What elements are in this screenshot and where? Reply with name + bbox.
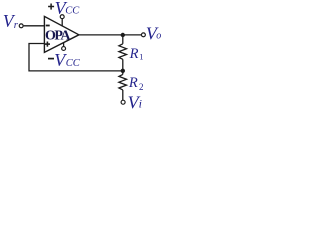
svg-text:2: 2 — [139, 82, 144, 92]
wire op-amp output to Vo — [79, 34, 141, 36]
terminal -VCC — [62, 47, 66, 51]
wire node B to R2 — [122, 71, 124, 75]
resistor R2 — [119, 74, 127, 90]
terminal Vo — [141, 33, 145, 37]
wire node A to R1 — [122, 35, 124, 44]
wire feedback: op-amp non-inverting input to node B — [29, 44, 123, 71]
op-amp inverting input marker (minus) — [46, 25, 50, 27]
junction node A (output/R1) — [121, 33, 125, 37]
wire op-amp bottom edge to -VCC terminal — [63, 43, 65, 47]
op-amp U1 triangle — [44, 16, 79, 52]
terminal +VCC — [60, 15, 64, 19]
terminal Vi — [121, 100, 125, 104]
wire R1 to node B — [122, 59, 124, 71]
svg-text:CC: CC — [66, 58, 81, 69]
svg-text:R: R — [128, 75, 138, 91]
svg-text:r: r — [14, 20, 19, 31]
svg-text:o: o — [156, 30, 161, 41]
wire R2 to Vi terminal — [122, 90, 124, 100]
wire Vr to op-amp inverting input — [24, 25, 45, 27]
wire +VCC terminal to op-amp top edge — [61, 19, 63, 26]
op-amp non-inverting input marker (plus) — [45, 43, 50, 45]
svg-text:1: 1 — [139, 52, 143, 62]
terminal Vr — [19, 24, 23, 28]
-VCC label — [48, 58, 54, 60]
svg-text:i: i — [139, 97, 142, 111]
resistor R1 — [119, 44, 127, 60]
+VCC label — [48, 6, 54, 8]
svg-text:OPA: OPA — [45, 28, 71, 43]
svg-text:CC: CC — [65, 5, 80, 16]
svg-text:R: R — [129, 46, 139, 62]
junction node B (R1/R2/feedback) — [121, 69, 125, 73]
